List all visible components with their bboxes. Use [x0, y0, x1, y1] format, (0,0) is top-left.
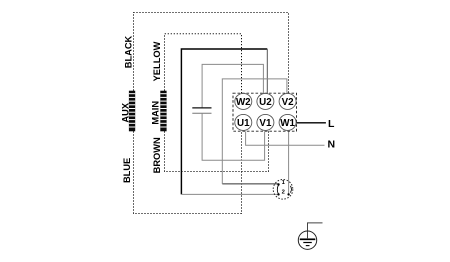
svg-text:U2: U2	[259, 97, 272, 108]
label BLUE	[122, 158, 132, 183]
cable BLACK: aux plug top to V2 (dashed wire)	[134, 13, 289, 94]
svg-text:BLACK: BLACK	[124, 35, 134, 68]
wire: to thermal protector contact 2	[181, 193, 278, 195]
wire: black loop from capacitor line to U2 (left+top)	[181, 49, 267, 194]
svg-text:2: 2	[282, 189, 285, 195]
svg-text:W2: W2	[236, 97, 251, 108]
terminal V2	[279, 93, 296, 109]
wire: W1 bottom to protector common	[288, 131, 290, 194]
terminal W2	[235, 93, 252, 109]
label BLACK	[124, 35, 134, 68]
wire: loop protector contact 1 to V2	[222, 79, 287, 184]
cable YELLOW: main plug top to W2 (dashed wire)	[165, 34, 242, 93]
label YELLOW	[152, 41, 162, 81]
ground symbol (protective earth)	[298, 223, 322, 250]
svg-text:N: N	[328, 139, 336, 151]
svg-text:W1: W1	[280, 118, 295, 129]
wire: capacitor top loop to U2	[202, 64, 263, 108]
svg-text:MAIN: MAIN	[151, 101, 161, 125]
terminal block dashed box	[233, 93, 297, 131]
terminal V1	[257, 114, 274, 130]
terminal W1	[279, 114, 296, 130]
connector bar MAIN	[160, 91, 166, 132]
svg-text:BROWN: BROWN	[152, 137, 162, 173]
thermal protector (dashed circle with contacts 1,2)	[273, 180, 293, 200]
connector bar AUX	[129, 91, 135, 132]
cable BROWN: main plug bottom to V1 (dashed wire)	[165, 131, 269, 171]
capacitor C (plates)	[192, 107, 211, 109]
wire L: W1 to L terminal	[296, 122, 326, 124]
svg-text:U1: U1	[237, 118, 250, 129]
svg-text:1: 1	[282, 180, 286, 186]
wire: protector contact 1 horizontal	[222, 183, 278, 185]
wire N: U1 bottom to N terminal	[246, 131, 325, 145]
svg-text:V1: V1	[259, 118, 272, 129]
label MAIN	[151, 101, 161, 125]
terminal U2	[257, 93, 274, 109]
terminal U1	[235, 114, 252, 130]
cable BLUE: aux plug bottom to U1 (dashed wire)	[134, 131, 242, 213]
svg-text:AUX: AUX	[120, 102, 130, 122]
svg-text:BLUE: BLUE	[122, 158, 132, 183]
wire: loop right descender to U2 top	[266, 49, 268, 94]
svg-text:YELLOW: YELLOW	[152, 41, 162, 81]
wire: capacitor bottom to V1	[202, 113, 265, 160]
svg-text:L: L	[328, 118, 335, 130]
label AUX	[120, 102, 130, 122]
svg-text:V2: V2	[282, 97, 295, 108]
label BROWN	[152, 137, 162, 173]
